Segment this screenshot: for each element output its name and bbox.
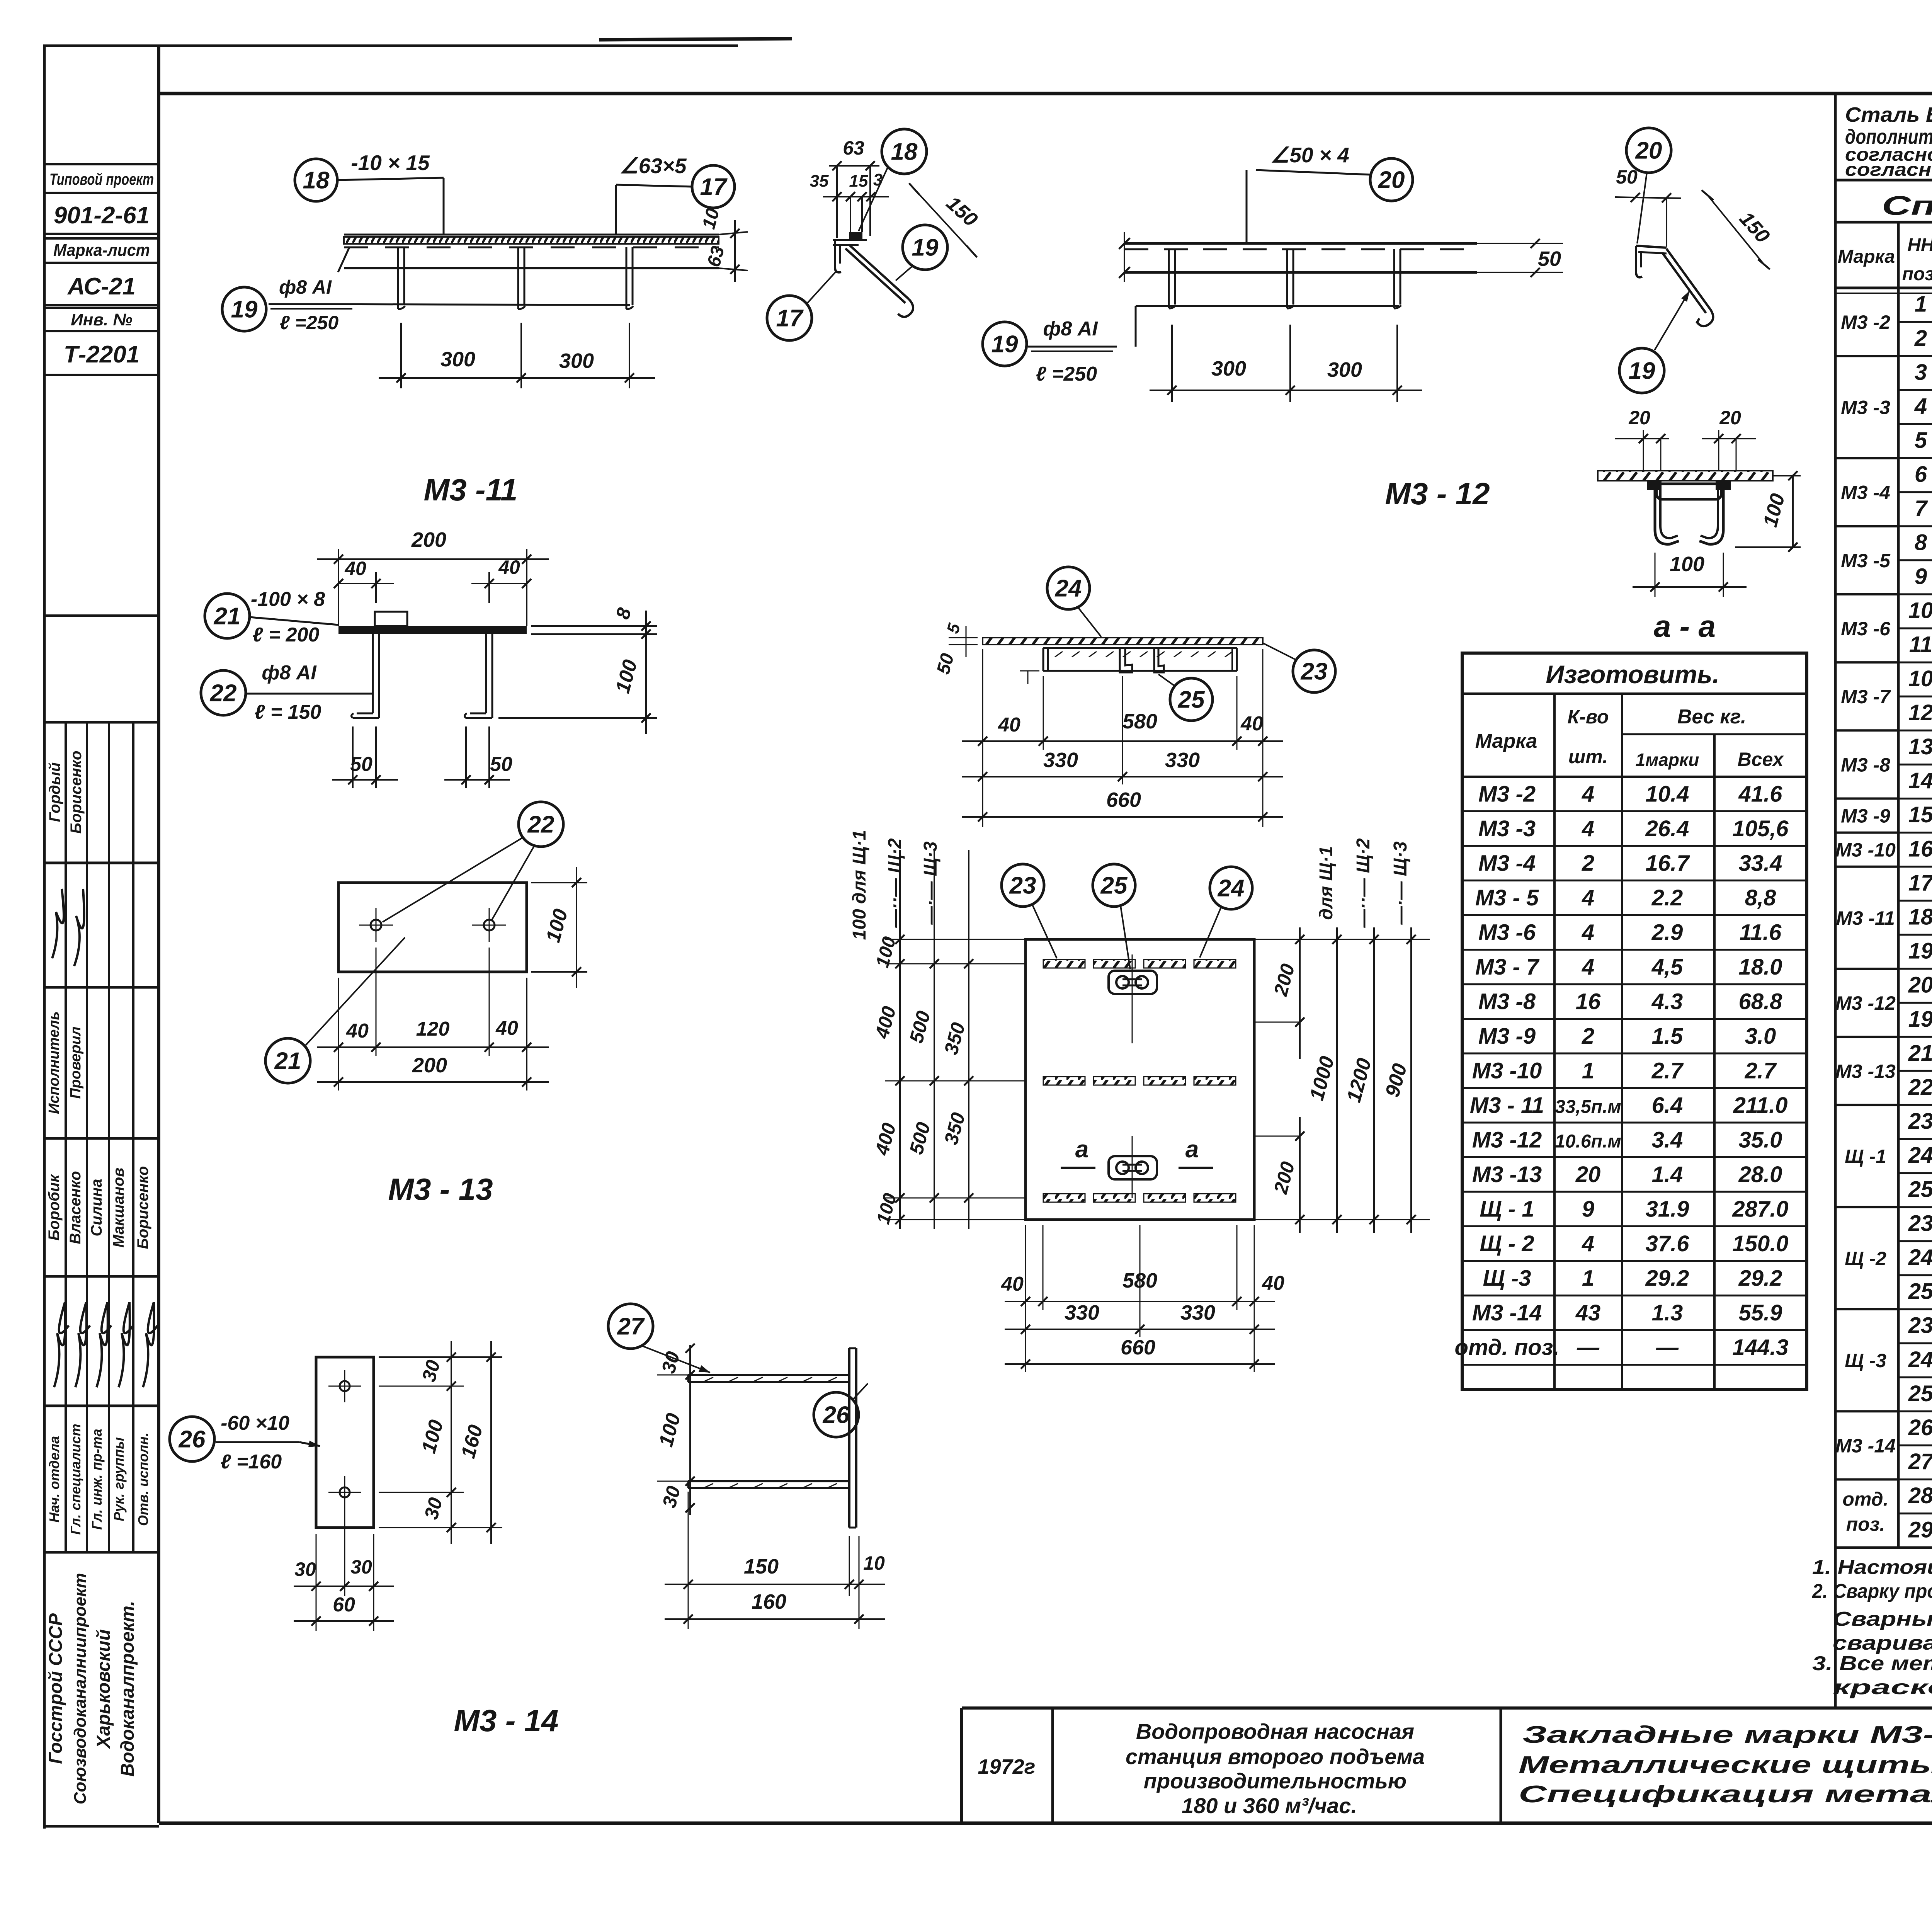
- svg-text:26: 26: [179, 1426, 206, 1453]
- svg-text:отд. поз.: отд. поз.: [1455, 1335, 1560, 1360]
- svg-text:26: 26: [1908, 1415, 1932, 1440]
- svg-text:Марка: Марка: [1838, 247, 1895, 267]
- svg-text:11: 11: [1909, 632, 1932, 657]
- title block: [962, 1706, 1932, 1710]
- svg-text:Исполнитель: Исполнитель: [46, 1011, 62, 1114]
- svg-text:7: 7: [1915, 496, 1928, 521]
- svg-text:ф8 АІ: ф8 АІ: [262, 662, 317, 684]
- svg-text:Борисенко: Борисенко: [134, 1166, 151, 1249]
- svg-text:50: 50: [1616, 166, 1638, 188]
- svg-text:3.0: 3.0: [1745, 1024, 1776, 1049]
- svg-text:300: 300: [1327, 358, 1362, 381]
- svg-text:Гл. специалист: Гл. специалист: [68, 1424, 83, 1535]
- M3-11 leader pos.19: [269, 304, 630, 305]
- svg-text:М3 -2: М3 -2: [1478, 781, 1536, 806]
- svg-text:29.2: 29.2: [1645, 1266, 1689, 1291]
- svg-text:20: 20: [1575, 1162, 1601, 1187]
- svg-text:М3 -9: М3 -9: [1478, 1024, 1536, 1049]
- svg-text:2.7: 2.7: [1745, 1058, 1777, 1083]
- svg-text:17: 17: [776, 305, 804, 332]
- dims 35/15/3: [823, 196, 889, 197]
- svg-text:1.3: 1.3: [1652, 1300, 1683, 1325]
- svg-text:25: 25: [1178, 687, 1205, 713]
- svg-text:20: 20: [1628, 407, 1650, 429]
- svg-text:30: 30: [350, 1556, 372, 1578]
- M3-11 bottom dimension 300/300: [400, 323, 402, 388]
- dim 100 bottom: [1655, 553, 1656, 597]
- svg-text:10.6п.м: 10.6п.м: [1555, 1131, 1621, 1152]
- svg-text:Спецификация металла.: Спецификация металла.: [1519, 1781, 1932, 1808]
- svg-text:М3 -11: М3 -11: [1836, 907, 1895, 929]
- svg-text:М3 -10: М3 -10: [1472, 1058, 1542, 1083]
- svg-text:2: 2: [1914, 326, 1927, 351]
- svg-text:16: 16: [1576, 989, 1601, 1014]
- svg-text:14: 14: [1908, 768, 1932, 793]
- svg-text:18: 18: [1908, 904, 1932, 929]
- svg-text:М3 -3: М3 -3: [1841, 396, 1890, 418]
- svg-text:68.8: 68.8: [1739, 989, 1783, 1014]
- svg-text:4: 4: [1582, 781, 1594, 806]
- svg-text:М3 -9: М3 -9: [1841, 805, 1890, 827]
- M3-14 side bottom dims 150/10/160: [688, 1492, 689, 1629]
- M3-12 hooks pos.19: [1168, 249, 1170, 308]
- M3-13 bottom dims 40/120/40 and 200: [338, 978, 339, 1090]
- svg-text:Водопроводная насосная: Водопроводная насосная: [1136, 1719, 1414, 1744]
- svg-text:М3 -3: М3 -3: [1478, 816, 1536, 841]
- spec table data rows: [1898, 321, 1932, 323]
- angle 63x5 pos.17: [833, 239, 867, 241]
- svg-text:21: 21: [274, 1048, 301, 1075]
- svg-text:17: 17: [1908, 870, 1932, 895]
- svg-text:330: 330: [1065, 1301, 1099, 1324]
- M3-13 callout 21 with label: [205, 594, 250, 638]
- svg-text:287.0: 287.0: [1732, 1196, 1788, 1221]
- svg-text:41.6: 41.6: [1738, 781, 1783, 806]
- svg-text:300: 300: [440, 348, 475, 371]
- svg-text:поз.: поз.: [1902, 264, 1932, 284]
- M3-13 callout 22 with label: [201, 670, 246, 715]
- svg-text:25: 25: [1100, 873, 1128, 899]
- svg-text:23: 23: [1301, 658, 1328, 685]
- svg-text:Т-2201: Т-2201: [64, 341, 139, 368]
- callout 20: [1370, 158, 1413, 201]
- svg-text:∠63×5: ∠63×5: [619, 154, 687, 178]
- svg-text:Силина: Силина: [88, 1179, 105, 1236]
- anchor rod pos.19 with hook: [1667, 249, 1710, 309]
- svg-text:М3 -14: М3 -14: [1472, 1300, 1542, 1325]
- svg-text:100: 100: [1670, 553, 1704, 576]
- svg-text:24: 24: [1908, 1143, 1932, 1168]
- plan bottom dims: [1043, 1225, 1044, 1310]
- svg-text:ℓ =160: ℓ =160: [221, 1451, 282, 1473]
- section cut a-a marks: [1061, 1167, 1095, 1169]
- svg-text:4: 4: [1582, 885, 1594, 910]
- svg-text:63: 63: [843, 137, 864, 159]
- callout 19: [1619, 348, 1664, 393]
- svg-text:1: 1: [1582, 1266, 1594, 1291]
- svg-text:М3 -13: М3 -13: [1835, 1060, 1896, 1082]
- svg-text:20: 20: [1635, 138, 1662, 164]
- svg-text:11.6: 11.6: [1740, 920, 1782, 945]
- M3-14 callout 26 with label: [170, 1417, 214, 1461]
- svg-text:Типовой проект: Типовой проект: [49, 170, 154, 188]
- svg-text:М3 - 14: М3 - 14: [454, 1703, 558, 1738]
- svg-text:27: 27: [617, 1313, 645, 1340]
- svg-text:4: 4: [1914, 394, 1927, 419]
- svg-text:17: 17: [700, 174, 728, 201]
- svg-text:—··— Щ·2: —··— Щ·2: [885, 838, 905, 928]
- svg-text:160: 160: [752, 1590, 786, 1613]
- hatched bar strips pos.24: [1043, 959, 1085, 968]
- callout 18: [882, 129, 927, 174]
- svg-text:Союзводоканалниипроект: Союзводоканалниипроект: [71, 1573, 90, 1805]
- chain for Щ-1: [899, 850, 901, 1229]
- svg-text:40: 40: [344, 558, 366, 579]
- svg-text:16: 16: [1908, 836, 1932, 861]
- svg-text:144.3: 144.3: [1732, 1335, 1788, 1360]
- svg-text:21: 21: [214, 603, 241, 630]
- svg-text:2.2: 2.2: [1651, 885, 1683, 910]
- shield top section: riffled plate: [983, 638, 1263, 645]
- svg-text:Гл. инж. пр-та: Гл. инж. пр-та: [89, 1429, 105, 1529]
- svg-text:Гордый: Гордый: [46, 762, 63, 822]
- svg-text:а - а: а - а: [1654, 609, 1716, 643]
- svg-text:—··— Щ·2: —··— Щ·2: [1353, 838, 1374, 928]
- svg-text:40: 40: [1240, 713, 1263, 735]
- svg-text:М3 -12: М3 -12: [1472, 1127, 1542, 1152]
- svg-text:∠50 × 4: ∠50 × 4: [1270, 143, 1349, 167]
- dim 100 right: [1773, 475, 1801, 476]
- svg-text:300: 300: [1211, 357, 1246, 380]
- svg-text:22: 22: [210, 680, 237, 707]
- M3-12 embedded mark: angle bar top view: [1124, 242, 1477, 245]
- svg-text:1.5: 1.5: [1652, 1024, 1683, 1049]
- sheet left border line: [43, 46, 46, 1829]
- svg-text:10.4: 10.4: [1646, 781, 1689, 806]
- svg-text:Сварные швы принимать: Сварные швы принимать по наименьшей толщ…: [1833, 1608, 1932, 1630]
- svg-text:М3 -14: М3 -14: [1835, 1435, 1896, 1456]
- svg-text:16.7: 16.7: [1646, 851, 1690, 876]
- callout 24: [1047, 567, 1090, 609]
- svg-text:6.4: 6.4: [1652, 1093, 1683, 1118]
- M3-14 front dims right 30/100/30 + 160: [379, 1356, 502, 1358]
- svg-text:2.9: 2.9: [1651, 920, 1683, 945]
- svg-text:М3 - 7: М3 - 7: [1475, 954, 1540, 980]
- svg-text:120: 120: [416, 1018, 450, 1040]
- svg-text:20: 20: [1719, 407, 1741, 429]
- dim 150 diagonal: [1708, 195, 1764, 264]
- svg-text:28.0: 28.0: [1738, 1162, 1782, 1187]
- angle 50x4 pos.20: [1636, 246, 1667, 248]
- svg-text:18: 18: [891, 139, 918, 165]
- M3-13 top dims 200 / 40 40: [338, 549, 339, 626]
- svg-text:12: 12: [1908, 700, 1932, 725]
- svg-text:М3 - 11: М3 - 11: [1470, 1093, 1544, 1118]
- frame bar under plate: [1043, 647, 1237, 649]
- svg-text:180 и 360 м³/час.: 180 и 360 м³/час.: [1182, 1793, 1357, 1818]
- svg-text:24: 24: [1055, 575, 1082, 602]
- svg-text:25: 25: [1908, 1177, 1932, 1202]
- svg-text:Госстрой СССР: Госстрой СССР: [46, 1613, 66, 1764]
- svg-text:19: 19: [1908, 1007, 1932, 1032]
- svg-text:660: 660: [1106, 788, 1141, 811]
- svg-text:10: 10: [1908, 666, 1932, 691]
- svg-text:330: 330: [1043, 749, 1078, 772]
- svg-text:4: 4: [1582, 816, 1594, 841]
- top view bottom dims 40/580/40, 330/330, 660: [982, 649, 983, 827]
- svg-text:105,6: 105,6: [1732, 816, 1789, 841]
- svg-text:М3 - 12: М3 - 12: [1385, 476, 1490, 511]
- svg-text:19: 19: [912, 235, 939, 261]
- svg-text:Всех: Всех: [1738, 749, 1784, 770]
- svg-text:4.3: 4.3: [1651, 989, 1683, 1014]
- svg-text:-100 × 8: -100 × 8: [251, 588, 325, 611]
- svg-text:М3 -10: М3 -10: [1835, 839, 1896, 861]
- svg-text:М3 -5: М3 -5: [1841, 550, 1891, 572]
- svg-text:Марка: Марка: [1475, 730, 1537, 752]
- svg-text:33,5п.м: 33,5п.м: [1555, 1097, 1621, 1117]
- spec group separators and marka labels: [1835, 287, 1898, 289]
- svg-text:Проверил: Проверил: [68, 1027, 84, 1099]
- svg-text:АС-21: АС-21: [67, 273, 136, 300]
- svg-text:ф8 АІ: ф8 АІ: [1043, 318, 1098, 340]
- svg-text:Спецификация: Спецификация: [1882, 191, 1932, 221]
- svg-text:4,5: 4,5: [1651, 954, 1683, 980]
- svg-text:18.0: 18.0: [1739, 954, 1782, 980]
- callout 18: [295, 159, 337, 201]
- svg-text:50: 50: [350, 753, 372, 776]
- svg-text:М3 -12: М3 -12: [1835, 992, 1896, 1014]
- svg-text:24: 24: [1908, 1245, 1932, 1270]
- callout 19: [903, 225, 947, 270]
- M3-11 embedded mark: bar with plate, top view: [344, 234, 719, 236]
- svg-text:50: 50: [1538, 247, 1561, 270]
- svg-text:станция второго подъема: станция второго подъема: [1126, 1744, 1425, 1769]
- svg-text:М3 - 5: М3 - 5: [1475, 885, 1539, 910]
- callout 23: [1293, 650, 1335, 692]
- svg-text:4: 4: [1582, 920, 1594, 945]
- svg-text:2: 2: [1582, 1024, 1594, 1049]
- main frame: [157, 46, 160, 1823]
- svg-text:33.4: 33.4: [1739, 851, 1782, 876]
- svg-text:40: 40: [498, 556, 520, 578]
- svg-text:Инв. №: Инв. №: [71, 310, 133, 329]
- M3-13 dims 50 50 below hooks: [352, 726, 354, 788]
- svg-text:13: 13: [1908, 734, 1932, 759]
- svg-text:ℓ =250: ℓ =250: [280, 312, 339, 333]
- svg-text:а: а: [1185, 1136, 1199, 1163]
- svg-text:26: 26: [823, 1402, 850, 1429]
- svg-text:Нач. отдела: Нач. отдела: [46, 1436, 62, 1523]
- dim 150 diagonal: [914, 189, 972, 252]
- svg-text:40: 40: [346, 1020, 369, 1042]
- svg-text:Борисенко: Борисенко: [68, 751, 85, 834]
- svg-text:10: 10: [863, 1552, 885, 1574]
- svg-text:9: 9: [1582, 1196, 1594, 1221]
- svg-text:25: 25: [1908, 1381, 1932, 1406]
- svg-text:24: 24: [1908, 1347, 1932, 1372]
- svg-text:19: 19: [231, 296, 258, 323]
- svg-text:согласно п. п 2, 6, 3 и 2: согласно п. п 2, 6, 3 и 2. 6. 4 ГОСТ 380…: [1845, 160, 1932, 180]
- svg-text:НН: НН: [1907, 235, 1932, 255]
- svg-text:28: 28: [1908, 1483, 1932, 1508]
- svg-text:8: 8: [1915, 530, 1927, 555]
- svg-text:26.4: 26.4: [1645, 816, 1689, 841]
- svg-text:30: 30: [294, 1558, 316, 1580]
- svg-text:поз.: поз.: [1846, 1514, 1885, 1535]
- svg-text:Щ - 2: Щ - 2: [1480, 1231, 1534, 1256]
- lifting loops pos.25: [1109, 971, 1157, 994]
- svg-text:20: 20: [1908, 973, 1932, 998]
- svg-text:Водоканалпроект.: Водоканалпроект.: [117, 1601, 138, 1776]
- svg-text:10: 10: [1908, 598, 1932, 623]
- svg-text:—·— Щ·3: —·— Щ·3: [1390, 841, 1411, 925]
- chain for Щ-2: [934, 850, 935, 1229]
- M3-12 right dim 50: [1477, 243, 1563, 244]
- svg-text:М3 -4: М3 -4: [1478, 851, 1536, 876]
- M3-13 dim 100 right of plan: [531, 882, 587, 883]
- svg-text:100 для Щ·1: 100 для Щ·1: [849, 830, 870, 940]
- svg-text:15: 15: [1908, 802, 1932, 827]
- plate -10x15 cross section: [849, 232, 862, 240]
- svg-text:23: 23: [1009, 873, 1036, 899]
- svg-text:М3 -4: М3 -4: [1841, 482, 1890, 504]
- table Izgotovit: [1462, 653, 1807, 1390]
- svg-text:24: 24: [1218, 875, 1245, 902]
- svg-text:5: 5: [1915, 428, 1927, 453]
- svg-text:Макшанов: Макшанов: [110, 1168, 127, 1248]
- svg-text:Сталь ВК Ст. 3 КП для свар: Сталь ВК Ст. 3 КП для сварных конструкци…: [1845, 103, 1932, 126]
- svg-text:К-во: К-во: [1568, 706, 1609, 728]
- M3-14 front view: plate with two holes: [316, 1357, 374, 1528]
- svg-text:—: —: [1577, 1335, 1600, 1360]
- right dim chains: [1254, 939, 1430, 940]
- svg-text:М3 -13: М3 -13: [1472, 1162, 1542, 1187]
- svg-text:22: 22: [1908, 1075, 1932, 1100]
- svg-text:ℓ = 150: ℓ = 150: [255, 701, 321, 723]
- svg-text:580: 580: [1122, 1269, 1157, 1292]
- svg-text:ф8 АІ: ф8 АІ: [279, 276, 332, 298]
- svg-text:50: 50: [490, 753, 512, 776]
- svg-text:150: 150: [744, 1555, 779, 1578]
- svg-text:производительностью: производительностью: [1144, 1769, 1406, 1793]
- sheet top border lines: [43, 44, 738, 47]
- svg-text:3.4: 3.4: [1652, 1127, 1683, 1152]
- svg-text:43: 43: [1575, 1300, 1601, 1325]
- M3-11 right end dims 10/63: [719, 232, 748, 235]
- svg-text:Щ -2: Щ -2: [1845, 1248, 1886, 1269]
- svg-text:—·— Щ·3: —·— Щ·3: [920, 841, 941, 925]
- callout 27: [608, 1304, 653, 1349]
- svg-text:М3 - 13: М3 - 13: [388, 1172, 493, 1206]
- svg-text:40: 40: [495, 1017, 518, 1039]
- svg-text:М3 -6: М3 -6: [1841, 618, 1891, 640]
- svg-text:Щ - 1: Щ - 1: [1480, 1196, 1534, 1221]
- callout 19: [222, 287, 266, 331]
- svg-text:Власенко: Власенко: [67, 1171, 84, 1244]
- svg-text:22: 22: [527, 811, 554, 838]
- svg-text:шт.: шт.: [1568, 746, 1608, 767]
- svg-text:-10 × 15: -10 × 15: [351, 151, 430, 175]
- svg-text:для Щ·1: для Щ·1: [1316, 846, 1337, 920]
- svg-text:330: 330: [1165, 749, 1200, 772]
- svg-text:Рук. группы: Рук. группы: [111, 1437, 127, 1521]
- svg-text:300: 300: [559, 349, 594, 373]
- M3-12 bottom dims 300/300: [1171, 325, 1173, 402]
- svg-text:35: 35: [810, 172, 829, 191]
- svg-text:200: 200: [412, 1054, 447, 1077]
- svg-text:ℓ =250: ℓ =250: [1036, 363, 1097, 385]
- svg-text:55.9: 55.9: [1739, 1300, 1782, 1325]
- svg-text:Закладные марки М3-11 ÷ М: Закладные марки М3-11 ÷ М3-14: [1522, 1722, 1932, 1748]
- svg-text:901-2-61: 901-2-61: [54, 202, 150, 229]
- chain for Щ-3: [968, 850, 969, 1229]
- svg-text:1. Настоящий чертеж рассм: 1. Настоящий чертеж рассматривать совмес…: [1812, 1556, 1932, 1579]
- sidebar top boxes: [44, 163, 159, 165]
- svg-text:М3 -8: М3 -8: [1841, 754, 1890, 776]
- svg-text:1972г: 1972г: [978, 1755, 1036, 1778]
- leader line pos.19: [1136, 305, 1399, 307]
- svg-text:отд.: отд.: [1842, 1489, 1888, 1510]
- callout 21 bottom: [265, 1038, 310, 1083]
- svg-text:8,8: 8,8: [1745, 885, 1776, 910]
- svg-text:2.7: 2.7: [1651, 1058, 1684, 1083]
- svg-text:23: 23: [1908, 1313, 1932, 1338]
- svg-text:19: 19: [1908, 939, 1932, 964]
- svg-text:29.2: 29.2: [1738, 1266, 1782, 1291]
- svg-text:330: 330: [1180, 1301, 1215, 1324]
- svg-text:М3 -11: М3 -11: [423, 473, 517, 507]
- svg-text:Вес кг.: Вес кг.: [1677, 706, 1746, 728]
- svg-text:—: —: [1656, 1335, 1679, 1360]
- svg-text:580: 580: [1122, 710, 1157, 733]
- svg-text:19: 19: [1629, 358, 1655, 384]
- svg-text:краской за 2 раза.: краской за 2 раза.: [1833, 1676, 1932, 1699]
- svg-text:40: 40: [998, 714, 1020, 736]
- svg-text:31.9: 31.9: [1646, 1196, 1689, 1221]
- svg-text:4: 4: [1582, 954, 1594, 980]
- svg-text:Марка-лист: Марка-лист: [53, 241, 150, 260]
- svg-text:211.0: 211.0: [1733, 1093, 1788, 1118]
- svg-text:40: 40: [1001, 1273, 1024, 1295]
- svg-text:Отв. исполн.: Отв. исполн.: [135, 1432, 151, 1526]
- svg-text:а: а: [1075, 1136, 1088, 1163]
- svg-text:150.0: 150.0: [1732, 1231, 1788, 1256]
- svg-text:1.4: 1.4: [1652, 1162, 1683, 1187]
- svg-text:3: 3: [1915, 360, 1927, 385]
- M3-14 front bottom dims 30/30/60: [316, 1534, 317, 1631]
- svg-text:Щ -1: Щ -1: [1845, 1146, 1886, 1167]
- svg-text:М3 -8: М3 -8: [1478, 989, 1536, 1014]
- svg-text:40: 40: [1262, 1272, 1284, 1295]
- svg-text:Щ -3: Щ -3: [1483, 1266, 1531, 1291]
- specification table: [1834, 94, 1837, 1708]
- dims 5 and 50 left: [949, 637, 978, 638]
- svg-text:37.6: 37.6: [1646, 1231, 1690, 1256]
- callout 17: [767, 296, 812, 340]
- svg-text:ℓ = 200: ℓ = 200: [253, 624, 320, 646]
- svg-text:4: 4: [1582, 1231, 1594, 1256]
- callout 26 side: [814, 1392, 859, 1437]
- M3-14 side dims 30/100/30: [657, 1375, 711, 1376]
- svg-text:23: 23: [1908, 1211, 1932, 1236]
- svg-text:Боробик: Боробик: [46, 1174, 63, 1241]
- svg-text:Металлические щиты Щ-1 ÷ Щ: Металлические щиты Щ-1 ÷ Щ-3.: [1519, 1752, 1932, 1778]
- svg-text:1: 1: [1582, 1058, 1594, 1083]
- svg-text:М3 -7: М3 -7: [1841, 686, 1891, 708]
- M3-14 side view: plate edge with 2 rods: [848, 1348, 850, 1528]
- svg-text:660: 660: [1121, 1336, 1155, 1359]
